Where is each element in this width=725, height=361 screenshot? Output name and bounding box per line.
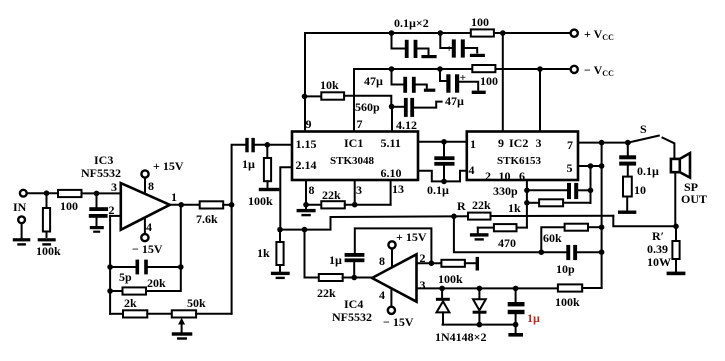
node diode bottom (477, 322, 483, 328)
node rail2 drop (537, 66, 543, 72)
svg-text:0.39: 0.39 (647, 242, 668, 256)
svg-text:3: 3 (111, 180, 117, 194)
svg-text:10W: 10W (647, 255, 671, 269)
svg-text:8: 8 (148, 179, 154, 193)
ground (zobel) (618, 211, 636, 214)
wire 1µ to IC1 pin 1.15 (255, 144, 292, 146)
svg-text:4: 4 (469, 163, 475, 177)
resistor 470 (478, 224, 527, 250)
svg-text:NF5532: NF5532 (332, 310, 372, 324)
node IC3 out (178, 202, 184, 208)
svg-text:+ 15V: + 15V (153, 159, 184, 173)
wiper arrow 50k (178, 318, 185, 332)
svg-text:7: 7 (357, 117, 363, 131)
svg-text:330p: 330p (493, 184, 518, 198)
ground (clamp cap) (508, 333, 523, 337)
wire 7.6k to node (223, 204, 231, 206)
svg-text:− 15V: − 15V (383, 315, 414, 329)
svg-text:7.6k: 7.6k (196, 212, 218, 226)
node rail1 cap A (389, 30, 395, 36)
diode D1 (1N4148) (436, 288, 450, 324)
svg-text:470: 470 (498, 236, 516, 250)
ground (input jack) (13, 238, 31, 245)
node IC4 out (351, 275, 357, 281)
node rail1 cap B (438, 30, 444, 36)
capacitor 0.1µ (rail1 decoupling) (392, 33, 429, 58)
terminal -15V (IC3 pin4) (132, 218, 163, 256)
node 560p left (389, 104, 395, 110)
node rail1 drop (500, 30, 506, 36)
node 5p left (107, 264, 113, 270)
node pin5 b (599, 163, 605, 169)
svg-text:10p: 10p (556, 262, 575, 276)
node 22k pin3 (352, 202, 358, 208)
node volume top (229, 202, 235, 208)
svg-text:100: 100 (480, 74, 498, 88)
svg-text:6: 6 (519, 169, 525, 183)
ground (1k) (271, 272, 290, 279)
svg-text:+ VCC: + VCC (584, 27, 614, 42)
wire pin2 vertical (109, 216, 111, 314)
node pin8 (303, 202, 309, 208)
resistor 7.6k (196, 201, 223, 226)
wire IC2 pin6 vertical (526, 180, 528, 228)
svg-text:3: 3 (356, 183, 362, 197)
svg-text:− VCC: − VCC (584, 63, 614, 78)
wire 330p right vertical (590, 166, 592, 203)
svg-text:2.14: 2.14 (296, 158, 317, 172)
capacitor 0.1µ (interstage) (427, 142, 455, 197)
svg-text:R: R (457, 199, 466, 213)
wire IC1 pin8 to ground (305, 180, 307, 205)
terminal -15V (IC4) (383, 288, 414, 329)
capacitor 1µ (IC4 feedback) (329, 228, 431, 277)
svg-text:20k: 20k (147, 276, 166, 290)
speaker SP (671, 153, 707, 206)
svg-text:560p: 560p (355, 100, 380, 114)
svg-text:IC1: IC1 (344, 136, 363, 150)
op-amp IC3 (81, 153, 177, 234)
svg-text:STK3048: STK3048 (330, 155, 375, 167)
svg-text:47µ: 47µ (445, 94, 464, 108)
capacitor 560p (355, 98, 442, 117)
node pin7 feedback (599, 140, 605, 146)
svg-text:8: 8 (379, 254, 385, 268)
node cap bottom (513, 322, 519, 328)
node 20k left (107, 288, 113, 294)
node 330p left (524, 188, 530, 194)
terminal -Vcc (571, 63, 614, 78)
svg-text:100: 100 (471, 15, 489, 29)
svg-text:1µ: 1µ (242, 157, 255, 171)
svg-text:9: 9 (306, 117, 312, 131)
resistor 100 (input) (58, 190, 82, 213)
node R22k left (451, 214, 457, 220)
svg-text:22k: 22k (317, 286, 336, 300)
svg-text:+: + (446, 43, 452, 55)
svg-text:OUT: OUT (681, 192, 707, 206)
svg-text:8: 8 (309, 183, 315, 197)
svg-text:100: 100 (60, 199, 78, 213)
node pin2 (429, 260, 435, 266)
diode D2 (1N4148) (473, 288, 487, 324)
wire +Vcc to IC2 pin9 (502, 33, 504, 132)
svg-text:0.1µ: 0.1µ (637, 164, 659, 178)
svg-text:10k: 10k (320, 78, 339, 92)
resistor 10 (zobel) (623, 166, 646, 210)
wire 22k drop (305, 230, 319, 278)
node speaker return (673, 224, 679, 230)
svg-text:9: 9 (498, 136, 504, 150)
svg-text:1µ: 1µ (329, 253, 342, 267)
svg-text:5p: 5p (119, 270, 132, 284)
svg-text:3: 3 (536, 136, 542, 150)
ground (100k) (38, 238, 56, 245)
terminal +Vcc (571, 27, 614, 42)
capacitor 47µ (rail2 left) (364, 69, 427, 93)
node coupling cap bottom (441, 179, 447, 185)
resistor 1k (to ground) (257, 230, 284, 271)
node 330p right (588, 188, 594, 194)
svg-text:NF5532: NF5532 (81, 166, 121, 180)
wire +Vcc rail (305, 16, 571, 33)
svg-text:2k: 2k (124, 296, 137, 310)
svg-text:0.1µ: 0.1µ (427, 183, 449, 197)
svg-text:6.10: 6.10 (381, 166, 402, 180)
svg-text:1: 1 (171, 190, 177, 204)
svg-text:100k: 100k (555, 295, 580, 309)
ground (100k bias) (259, 188, 280, 191)
svg-text:− 15V: − 15V (132, 242, 163, 256)
capacitor 0.1µ (zobel) (619, 143, 659, 178)
wire left jog to 1k/22k (280, 217, 331, 230)
wire pin2 (110, 215, 121, 217)
wire IN to R100 (27, 192, 58, 194)
resistor 1k (IC2 pin5) (508, 199, 591, 215)
wire IC2 pin7 output (578, 142, 630, 144)
resistor 22k (IC1 pin3) (306, 188, 391, 208)
node 5p right (178, 264, 184, 270)
resistor 2k (110, 296, 147, 318)
wire -Vcc to IC2 pin3 (539, 69, 541, 132)
potentiometer 50k (172, 296, 206, 318)
wire -Vcc rail (354, 68, 571, 70)
svg-text:S: S (640, 122, 647, 136)
capacitor 47µ (rail1 decoupling) (440, 33, 477, 58)
IC2 STK6153 (467, 132, 578, 184)
svg-text:1.15: 1.15 (296, 137, 317, 151)
wire speaker to node (674, 172, 676, 226)
wire 2k to 50k (147, 313, 172, 315)
svg-text:10: 10 (499, 169, 511, 183)
wire IC1 pin4.12 (391, 107, 393, 132)
op-amp IC4 (332, 251, 426, 324)
svg-text:13: 13 (392, 182, 404, 196)
node 1k left (524, 200, 530, 206)
capacitor 10p (541, 245, 601, 276)
wire IC3 output (170, 204, 200, 206)
svg-text:4: 4 (146, 220, 152, 234)
resistor 100 (rail2) (472, 65, 498, 88)
svg-text:1: 1 (470, 137, 476, 151)
resistor 100 (rail1) (471, 15, 494, 37)
resistor 100k (IC1 input bias) (248, 145, 273, 208)
svg-text:60k: 60k (543, 231, 562, 245)
ground (R') (667, 272, 686, 276)
svg-text:22k: 22k (472, 198, 491, 212)
wire 50k to node (196, 313, 232, 315)
ground (470) (470, 228, 489, 241)
svg-text:3: 3 (420, 278, 426, 292)
capacitor 5p (110, 260, 181, 284)
capacitor 47µ (rail2 electrolytic) (440, 69, 478, 108)
resistor 100k (input shunt) (36, 193, 61, 258)
wire IC1 pin 2.14 (280, 167, 292, 229)
terminal IN ground post (18, 216, 25, 237)
ground (rail2 cap D) (472, 91, 486, 94)
node coupling cap top (441, 139, 447, 145)
terminal +15V (IC4) (388, 230, 426, 268)
node D1 top (439, 286, 445, 292)
node 60k right (599, 224, 605, 230)
capacitor 330p (493, 183, 591, 199)
node pin7 zobel (625, 140, 631, 146)
svg-text:100k: 100k (36, 244, 61, 258)
node 22k drop (302, 227, 308, 233)
ground (rail1 cap A) (421, 55, 436, 58)
wire IC1 pin 5.11 to IC2 pin1 (418, 141, 467, 143)
wire vertical 7.6k node to 1u and 50k (232, 145, 246, 314)
svg-text:47µ: 47µ (364, 74, 383, 88)
node rail2 cap C (389, 66, 395, 72)
wire long feedback line (331, 216, 677, 227)
resistor R 22k (457, 198, 491, 220)
wire IC1 pin 6.10 to IC2 pin4 (418, 171, 467, 182)
capacitor 1µ (coupling to IC1) (242, 138, 255, 171)
svg-text:5: 5 (567, 161, 573, 175)
capacitor 1µ (clamp) (508, 288, 540, 332)
resistor 20k (110, 205, 181, 295)
wire node X drop (454, 216, 541, 252)
wire R100 to IC3 pin3 (82, 192, 121, 194)
svg-text:IC4: IC4 (344, 297, 363, 311)
svg-text:1k: 1k (257, 246, 270, 260)
resistor 100k (IC4 pin2) (438, 260, 475, 286)
ground (50k wiper) (172, 332, 193, 339)
IC1 STK3048 (292, 117, 418, 197)
wire IC4 pin2 (417, 262, 442, 264)
node 10k left (302, 94, 308, 100)
ground (rail2 cap C) (424, 89, 435, 92)
svg-text:0.1µ×2: 0.1µ×2 (394, 16, 429, 30)
terminator bar (100k) (476, 257, 479, 271)
svg-text:IC2: IC2 (509, 136, 528, 150)
wire IC1 pin3 (354, 180, 356, 205)
node D2 top (477, 286, 483, 292)
resistor R' 0.39 10W (647, 226, 680, 271)
svg-text:100k: 100k (438, 272, 463, 286)
svg-text:+ 15V: + 15V (396, 230, 427, 244)
node 10p right (599, 249, 605, 255)
wire IC4 pin3 line (417, 287, 558, 289)
node pin3 (94, 191, 100, 197)
terminal +15V (IC3 pin8) (141, 159, 183, 194)
node rail2 cap D (437, 66, 443, 72)
svg-text:IC3: IC3 (94, 153, 113, 167)
node pin5 a (588, 163, 594, 169)
node input (44, 190, 50, 196)
svg-text:IN: IN (13, 200, 27, 214)
wire IC1 pin13 (390, 180, 392, 205)
ground (input cap) (90, 226, 104, 233)
resistor 10k (305, 78, 391, 107)
svg-text:1N4148×2: 1N4148×2 (435, 330, 487, 344)
svg-text:5.11: 5.11 (381, 136, 401, 150)
svg-text:7: 7 (567, 138, 573, 152)
svg-text:22k: 22k (322, 188, 341, 202)
node 1.15 (265, 142, 271, 148)
wire diode bottom line (443, 324, 516, 326)
svg-text:STK6153: STK6153 (497, 155, 542, 167)
capacitor (input, electrolytic) (89, 193, 108, 225)
svg-text:2: 2 (485, 169, 491, 183)
resistor 22k (IC4 input) (317, 274, 372, 300)
resistor 100k (feedback lower) (555, 284, 602, 309)
ground (rail1 cap B) (470, 54, 485, 57)
node 1µ top (513, 286, 519, 292)
switch S (630, 122, 674, 159)
svg-text:1µ: 1µ (527, 311, 540, 325)
svg-text:50k: 50k (187, 296, 206, 310)
svg-text:10: 10 (634, 183, 646, 197)
ground (IC1 pin8) (297, 205, 316, 217)
wire feedback vertical (pin7 to 100k) (601, 143, 603, 288)
wire IC1 pin7 to rail2 (353, 69, 355, 132)
svg-text:4: 4 (379, 288, 385, 302)
svg-text:100k: 100k (248, 194, 273, 208)
node 1k top (277, 227, 283, 233)
svg-text:4.12: 4.12 (396, 118, 417, 132)
resistor 60k (541, 224, 601, 253)
wire IC1 pin9 to rail1 (304, 33, 306, 132)
svg-text:R′: R′ (652, 229, 664, 243)
wire IC2 pin5 (578, 165, 602, 167)
node 10p left (539, 249, 545, 255)
terminal IN (13, 190, 27, 214)
svg-text:1k: 1k (508, 201, 521, 215)
